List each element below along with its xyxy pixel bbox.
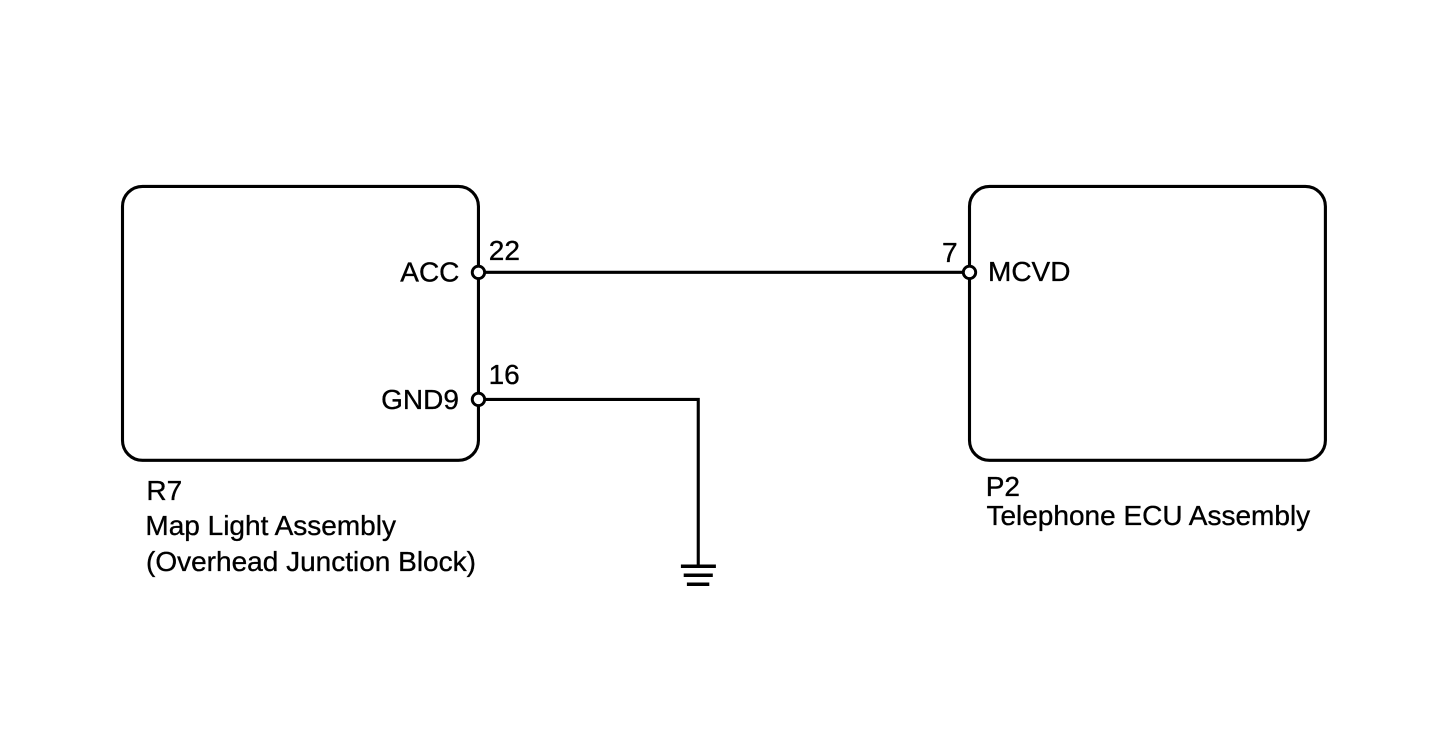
- svg-text:GND9: GND9: [381, 384, 459, 415]
- svg-text:MCVD: MCVD: [988, 256, 1070, 287]
- svg-text:R7: R7: [146, 475, 182, 506]
- svg-text:16: 16: [489, 359, 520, 390]
- svg-text:P2: P2: [986, 471, 1020, 502]
- svg-text:ACC: ACC: [400, 256, 459, 287]
- svg-text:Telephone ECU Assembly: Telephone ECU Assembly: [986, 500, 1310, 531]
- svg-text:Map Light Assembly: Map Light Assembly: [145, 510, 396, 541]
- svg-text:7: 7: [942, 237, 958, 268]
- svg-text:(Overhead Junction Block): (Overhead Junction Block): [146, 546, 476, 577]
- svg-text:22: 22: [489, 235, 520, 266]
